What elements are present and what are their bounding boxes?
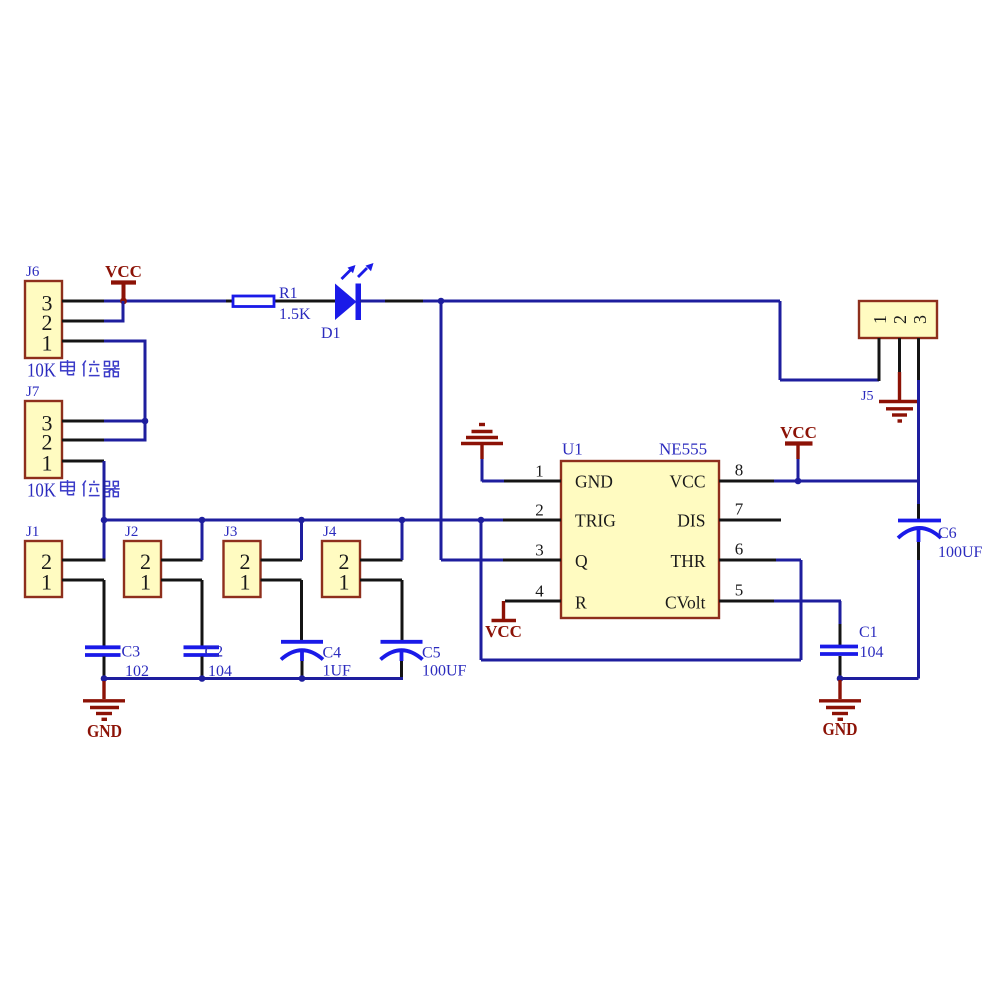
- svg-text:CVolt: CVolt: [665, 593, 706, 613]
- wire D1 node to J5: [423, 301, 879, 380]
- ground inverted above U1 pin1: [461, 425, 503, 460]
- wire J5 pin1: [878, 338, 881, 381]
- svg-text:C6: C6: [938, 525, 957, 542]
- node C1 GND junction: [837, 675, 844, 682]
- svg-text:1: 1: [339, 570, 350, 595]
- svg-text:J6: J6: [26, 264, 40, 280]
- svg-text:10K: 10K: [27, 480, 56, 502]
- wire VCC pin 8: [719, 480, 776, 483]
- svg-text:1: 1: [140, 570, 151, 595]
- capacitor C2: [184, 647, 220, 655]
- wire VCC node to R1: [104, 300, 226, 303]
- svg-text:1: 1: [42, 451, 53, 476]
- svg-text:D1: D1: [321, 325, 341, 342]
- node VCC junction pin8: [795, 478, 802, 485]
- svg-text:3: 3: [910, 315, 930, 324]
- svg-text:VCC: VCC: [780, 423, 817, 442]
- wire bottom GND rail: [104, 677, 403, 680]
- svg-text:C1: C1: [859, 624, 878, 641]
- svg-text:100UF: 100UF: [938, 544, 983, 561]
- U1 pin names: [575, 472, 706, 613]
- svg-text:3: 3: [535, 541, 544, 560]
- node rail J2: [199, 517, 206, 524]
- resistor R1: [233, 296, 274, 307]
- wire J6 pin2: [62, 320, 104, 323]
- node GND rail C4: [299, 675, 306, 682]
- svg-text:1: 1: [41, 570, 52, 595]
- node GND rail left: [101, 675, 108, 682]
- ground GND right: [819, 680, 861, 739]
- node rail J3: [298, 517, 305, 524]
- svg-text:VCC: VCC: [670, 472, 706, 492]
- wire TRIG to THR loop: [481, 520, 801, 660]
- wire C2 to rail: [201, 657, 204, 678]
- power VCC at pin8: [780, 423, 817, 479]
- svg-text:GND: GND: [575, 472, 613, 492]
- wire C4 to rail: [301, 661, 304, 677]
- wire THR pin 6: [719, 559, 776, 562]
- ground GND left: [83, 681, 125, 741]
- svg-text:U1: U1: [562, 440, 583, 459]
- op-amp U1 NE555 body: [561, 440, 719, 619]
- svg-text:R: R: [575, 593, 587, 613]
- label 10K potentiometer under J6: [27, 360, 120, 382]
- capacitor C5: [381, 642, 423, 661]
- svg-text:GND: GND: [823, 719, 858, 739]
- svg-text:J4: J4: [323, 524, 337, 540]
- node TRIG junction: [478, 517, 485, 524]
- connector J4: [322, 524, 360, 597]
- svg-text:J3: J3: [224, 524, 237, 540]
- svg-text:1: 1: [42, 331, 53, 356]
- wire J5 pin2 to ground: [898, 338, 901, 372]
- wire Q pin 3: [503, 559, 561, 562]
- svg-text:C3: C3: [122, 644, 141, 661]
- wire J4 pin2 up to rail: [360, 559, 403, 562]
- capacitor C4: [281, 642, 323, 661]
- wire C5 to rail: [400, 661, 403, 677]
- wire GND pin 1: [482, 459, 505, 482]
- node D1 junction: [438, 298, 445, 305]
- power VCC at J6: [105, 262, 142, 304]
- power VCC at pin4 (inverted): [485, 601, 522, 641]
- svg-text:J7: J7: [26, 384, 40, 400]
- svg-text:R1: R1: [279, 285, 298, 302]
- svg-text:J2: J2: [125, 524, 138, 540]
- svg-text:VCC: VCC: [105, 262, 142, 281]
- svg-text:7: 7: [735, 500, 744, 519]
- node J7 junction: [142, 418, 149, 425]
- svg-text:Q: Q: [575, 551, 588, 571]
- capacitor C6: [898, 521, 941, 543]
- svg-text:J5: J5: [861, 389, 873, 404]
- wire J6 pin3 to VCC node: [62, 300, 104, 303]
- LED D1: [335, 263, 374, 320]
- wire J3 pin2 up to rail: [261, 559, 303, 562]
- svg-text:4: 4: [535, 582, 544, 601]
- wire TRIG rail: [104, 519, 503, 522]
- wire TRIG pin 2: [503, 519, 561, 522]
- wire J1 pin2: [62, 559, 106, 562]
- wire J2 pin1 to C2: [161, 580, 202, 646]
- node TRIG rail left: [101, 517, 108, 524]
- wire J4 pin1 to C5: [360, 580, 402, 641]
- wire C3 to GND: [103, 657, 106, 678]
- connector J2: [124, 524, 161, 597]
- wire J5 pin3 down: [917, 338, 920, 380]
- wire C6 bottom: [917, 542, 920, 560]
- svg-text:2: 2: [890, 315, 910, 324]
- U1 pin numbers: [535, 461, 744, 601]
- svg-text:100UF: 100UF: [422, 663, 467, 680]
- svg-text:VCC: VCC: [485, 622, 522, 641]
- svg-text:1UF: 1UF: [323, 663, 352, 680]
- svg-text:1: 1: [870, 315, 890, 324]
- wire D1 node down to Q: [441, 301, 504, 560]
- svg-text:THR: THR: [671, 551, 706, 571]
- ground at J5: [879, 402, 920, 422]
- node rail J4: [399, 517, 406, 524]
- wire rail to J1 pin2: [103, 520, 106, 560]
- connector J1: [25, 524, 62, 597]
- svg-text:1: 1: [535, 462, 544, 481]
- wire C1 to C6 bottom: [840, 677, 919, 680]
- wire DIS pin 7 stub: [719, 519, 781, 522]
- wire J7 pin3: [62, 420, 104, 423]
- capacitor C3: [85, 647, 121, 655]
- svg-text:J1: J1: [26, 524, 39, 540]
- node GND rail J2: [199, 675, 206, 682]
- connector J3: [224, 524, 261, 597]
- svg-text:C5: C5: [422, 645, 441, 662]
- svg-text:104: 104: [208, 663, 232, 680]
- svg-text:TRIG: TRIG: [575, 511, 616, 531]
- wire CVolt pin 5 to C1: [719, 600, 776, 603]
- wire R1 leads: [226, 300, 336, 303]
- svg-text:5: 5: [735, 581, 744, 600]
- wire C1 down: [839, 656, 842, 677]
- wire J1 pin1 to C3: [62, 580, 104, 646]
- connector J5: [859, 301, 937, 404]
- svg-text:C2: C2: [205, 644, 224, 661]
- svg-text:1: 1: [240, 570, 251, 595]
- svg-text:10K: 10K: [27, 360, 56, 382]
- svg-text:NE555: NE555: [659, 440, 707, 459]
- label 10K potentiometer under J7: [27, 480, 120, 502]
- connector J7: [25, 384, 62, 478]
- svg-text:8: 8: [735, 461, 744, 480]
- wire J3 pin1 to C4: [261, 580, 302, 641]
- capacitor C1: [820, 647, 858, 655]
- svg-text:GND: GND: [87, 721, 122, 741]
- wire J2 pin2 up to rail: [161, 559, 203, 562]
- svg-text:104: 104: [860, 644, 884, 661]
- wire J7 pin1 down to TRIG rail: [62, 460, 104, 463]
- wire J6 pin1 to J7 pin3: [62, 340, 104, 343]
- svg-text:DIS: DIS: [677, 511, 705, 531]
- connector J6: [25, 264, 62, 358]
- wire J7 pin2: [62, 439, 104, 442]
- svg-text:1.5K: 1.5K: [279, 306, 311, 323]
- wire R pin 4: [505, 600, 561, 603]
- svg-text:6: 6: [735, 540, 744, 559]
- wire D1 cathode: [360, 300, 385, 303]
- svg-text:C4: C4: [323, 645, 342, 662]
- svg-text:2: 2: [535, 501, 544, 520]
